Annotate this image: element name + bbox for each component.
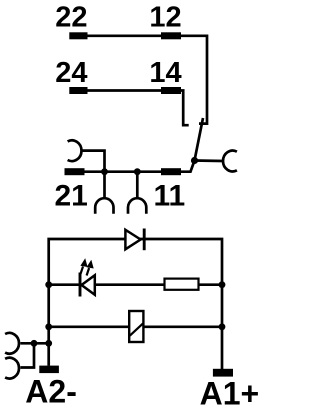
svg-text:24: 24 — [55, 57, 87, 89]
svg-text:11: 11 — [153, 180, 185, 213]
svg-text:21: 21 — [55, 180, 88, 213]
svg-text:A2-: A2- — [25, 373, 77, 408]
svg-text:12: 12 — [149, 2, 181, 34]
svg-text:A1+: A1+ — [200, 375, 260, 408]
svg-text:14: 14 — [149, 57, 181, 89]
svg-text:22: 22 — [55, 2, 87, 34]
